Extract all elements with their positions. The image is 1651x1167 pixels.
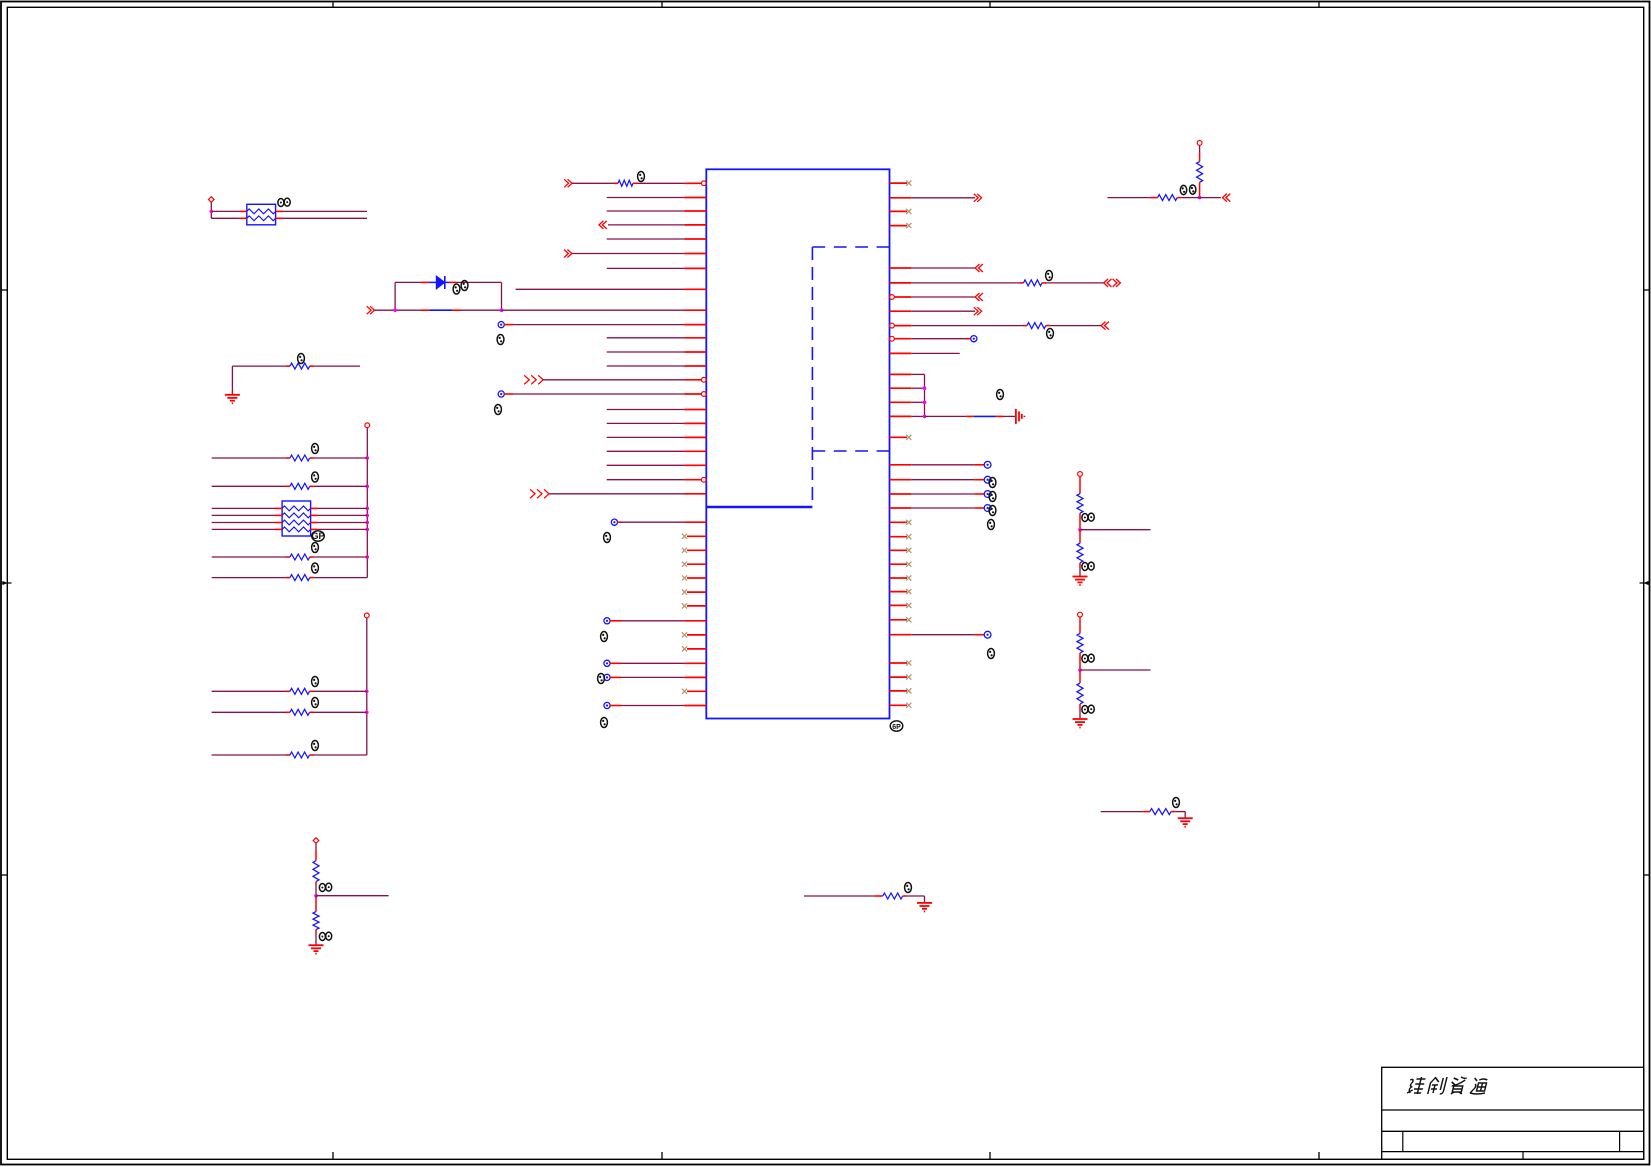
vertical bus net B1 bbox=[366, 428, 370, 578]
label R16 ref bbox=[1082, 513, 1094, 521]
resistor pack RN1 bbox=[240, 204, 283, 225]
node junction J3 bbox=[1078, 668, 1082, 672]
label R17 ref bbox=[1082, 562, 1094, 570]
label R18 ref bbox=[1082, 654, 1094, 662]
pin row L12 wire bbox=[607, 351, 707, 353]
power pin P6 bbox=[1078, 612, 1083, 617]
svg-text:GP: GP bbox=[311, 531, 324, 541]
label R13 ref bbox=[319, 932, 331, 940]
label R20 ref bbox=[1180, 185, 1196, 195]
node junction J1 bbox=[314, 894, 318, 898]
label RL4 label bbox=[989, 506, 996, 516]
pin row RL5 no-connect bbox=[890, 520, 912, 525]
pin row LL10 no-connect bbox=[682, 646, 706, 651]
company name text (vector glyph strokes) bbox=[1407, 1077, 1489, 1094]
power pin P3 bbox=[364, 613, 369, 618]
pin row L11 wire bbox=[607, 337, 707, 339]
pin row RL10 no-connect bbox=[890, 589, 912, 594]
label RN2 ref GP bbox=[311, 531, 324, 541]
pin row L1 with resistor R1 and input arrow bbox=[564, 179, 706, 187]
resistor R14 with ground bbox=[804, 893, 925, 903]
resistor R18 ladder top bbox=[1077, 617, 1083, 670]
resistor R16 ladder top bbox=[1077, 477, 1083, 530]
pin rows RU12-RU15 bus with power tap bbox=[890, 374, 1016, 418]
pin row LL9 no-connect bbox=[682, 632, 706, 637]
wire from J1 bbox=[316, 895, 389, 897]
label R11 ref bbox=[312, 741, 319, 751]
pin row RU10 bubble wire port bbox=[890, 336, 977, 342]
label L10 port label bbox=[497, 335, 504, 345]
pin row LL4 no-connect bbox=[682, 562, 706, 567]
label L15 port label bbox=[495, 405, 502, 415]
pin row RU16 no-connect bbox=[890, 435, 912, 440]
label RL2 label bbox=[989, 478, 996, 488]
resistor R13 divider bottom bbox=[313, 896, 319, 945]
node junction J2 bbox=[1078, 528, 1082, 532]
ground GND5 bbox=[1073, 577, 1088, 586]
label R4 ref bbox=[312, 472, 319, 482]
ground GND4 bbox=[1178, 818, 1193, 827]
pin row RU9 bubble wire resistor R7 left arrow bbox=[890, 322, 1109, 330]
pin row L22 wire with triple arrow bbox=[530, 489, 706, 498]
pin row LL11 port wire bbox=[604, 660, 706, 666]
pin row RL7 no-connect bbox=[890, 548, 912, 553]
pin row RU2 wire out arrow bbox=[890, 194, 982, 202]
pin row LL6 no-connect bbox=[682, 590, 706, 595]
label R9 ref bbox=[312, 677, 319, 687]
pin row L21 wire with bubble bbox=[607, 477, 706, 482]
wire from J3 bbox=[1080, 669, 1151, 671]
label RN1 ref bbox=[278, 198, 290, 206]
pin row RU8 wire right arrow bbox=[890, 307, 982, 315]
pin row LL12 port wire bbox=[604, 674, 706, 680]
label R8 ref bbox=[312, 563, 319, 573]
diode D1 bypass network bbox=[367, 276, 504, 314]
pin row L20 wire bbox=[607, 464, 707, 466]
label R5 ref bbox=[312, 543, 319, 553]
label RL3 label bbox=[989, 492, 996, 502]
label R1 ref bbox=[638, 172, 645, 182]
ground GND2 bbox=[309, 945, 324, 954]
resistor R9 row bbox=[212, 688, 367, 694]
pin row RL16 no-connect bbox=[890, 688, 912, 693]
pin row RL17 no-connect bbox=[890, 703, 912, 708]
label R12 ref bbox=[319, 883, 331, 891]
pin row L13 wire bbox=[607, 365, 707, 367]
pin row RL9 no-connect bbox=[890, 575, 912, 580]
pin row RL2 wire port bbox=[890, 476, 991, 483]
pin row RL4 wire port bbox=[890, 505, 991, 512]
pin row L15 port wire bubble bbox=[498, 391, 706, 397]
pin row RL3 wire port bbox=[890, 491, 991, 498]
resistor R17 ladder bottom bbox=[1077, 530, 1083, 577]
pin row LL1 port wire bbox=[611, 519, 706, 525]
resistor R10 row bbox=[212, 709, 367, 715]
wire from J2 bbox=[1080, 529, 1151, 531]
pin row LL2 no-connect bbox=[682, 534, 706, 539]
power pin P4 bbox=[313, 838, 319, 844]
label LL12 label bbox=[598, 674, 605, 684]
resistor R20 pull-up vertical bbox=[1197, 146, 1203, 198]
pin row LL5 no-connect bbox=[682, 575, 706, 580]
ground GND3 bbox=[917, 903, 932, 912]
label LL8 label bbox=[601, 632, 608, 642]
resistor R2 to ground GND1 bbox=[232, 363, 360, 395]
label R14 ref bbox=[905, 883, 912, 893]
pin row RL12 no-connect bbox=[890, 617, 912, 622]
pin row L19 wire bbox=[607, 450, 707, 452]
resistor pack RN2 bbox=[212, 501, 368, 536]
resistor R5 row bbox=[212, 554, 368, 560]
label R2 ref bbox=[298, 354, 305, 364]
pin row RL14 no-connect bbox=[890, 660, 912, 665]
ground GND1 bbox=[225, 395, 240, 404]
resistor R21 series with arrow bbox=[1107, 194, 1230, 202]
pin row RU11 short wire bbox=[890, 352, 960, 354]
pin row RU4 no-connect bbox=[890, 223, 912, 228]
label R3 ref bbox=[312, 444, 319, 454]
pin row L10 port and wire bbox=[498, 322, 706, 328]
resistor R4 row bbox=[212, 483, 368, 489]
pin row RU1 no-connect bbox=[890, 181, 912, 186]
label U1 ref 6P bbox=[890, 721, 903, 731]
pin row L17 wire bbox=[607, 422, 707, 424]
pin row L7 wire bbox=[607, 267, 707, 269]
label R19 ref bbox=[1082, 705, 1094, 713]
pin row LL14 port wire bbox=[604, 702, 706, 708]
pin row L9 wire from diode net bbox=[502, 309, 707, 311]
pin row RL15 no-connect bbox=[890, 675, 912, 680]
svg-text:6P: 6P bbox=[892, 724, 901, 731]
pin row RU3 no-connect bbox=[890, 209, 912, 214]
label RL group label bbox=[988, 520, 995, 530]
label D1 ref bbox=[453, 284, 460, 294]
pin row LL13 no-connect bbox=[682, 689, 706, 694]
pin row L18 wire bbox=[607, 436, 707, 438]
pin row RL8 no-connect bbox=[890, 562, 912, 567]
label R7 ref bbox=[1047, 329, 1054, 339]
power pin P1 bbox=[209, 197, 215, 203]
pin row L5 wire bbox=[607, 238, 707, 240]
resistor R3 row bbox=[212, 455, 368, 461]
label ferrite label bbox=[997, 390, 1004, 400]
pin row RU5 wire left arrow bbox=[890, 264, 983, 272]
label LL1 label bbox=[604, 533, 611, 543]
wire from P1 bbox=[210, 202, 214, 218]
pin row L16 wire bbox=[607, 409, 707, 411]
pin row L14 wire with triple arrow and bubble bbox=[524, 375, 706, 384]
pin row L3 wire bbox=[607, 210, 707, 212]
resistor R11 row bbox=[212, 752, 367, 758]
wire RN1 row1 bbox=[211, 210, 367, 212]
label R15 ref bbox=[1173, 798, 1180, 808]
pin row L6 wire with right arrow bbox=[564, 250, 706, 258]
resistor R19 ladder bottom bbox=[1077, 670, 1083, 719]
title block bbox=[1382, 1067, 1644, 1159]
ground GND6 bbox=[1073, 719, 1088, 728]
vertical bus net B2 bbox=[365, 618, 369, 755]
pin row RU6 wire with resistor R6 bbox=[890, 279, 1121, 287]
pin row RL1 wire port bbox=[890, 461, 991, 468]
power pin P7 bbox=[1197, 141, 1202, 146]
ground GND right (rotated) bbox=[1016, 409, 1025, 424]
wire RN1 row2 bbox=[211, 217, 367, 219]
pin row LL7 no-connect bbox=[682, 603, 706, 608]
pin row RL11 no-connect bbox=[890, 603, 912, 608]
pin row LL3 no-connect bbox=[682, 548, 706, 553]
pin row RL6 no-connect bbox=[890, 534, 912, 539]
resistor R8 row bbox=[212, 575, 368, 581]
power pin P2 bbox=[365, 423, 370, 428]
pin row RU7 bubble wire left arrow bbox=[890, 293, 983, 301]
pin row L8 long wire bbox=[516, 288, 707, 290]
label RL13 label bbox=[988, 649, 995, 659]
op IC U1 body bbox=[706, 169, 889, 718]
label R10 ref bbox=[312, 698, 319, 708]
label R6 ref bbox=[1046, 271, 1053, 281]
pin row RL13 wire port bbox=[890, 631, 991, 638]
node junction J4 bbox=[1198, 196, 1202, 200]
resistor R12 divider top bbox=[313, 843, 319, 895]
label D1 value bbox=[461, 281, 468, 291]
resistor R15 with ground bbox=[1101, 809, 1186, 819]
label LL14 label bbox=[601, 718, 608, 728]
power pin P5 bbox=[1078, 472, 1083, 477]
pin row L2 wire bbox=[607, 197, 707, 199]
pin row LL8 port wire bbox=[604, 618, 706, 624]
pin row L4 wire with left arrow bbox=[599, 221, 706, 229]
